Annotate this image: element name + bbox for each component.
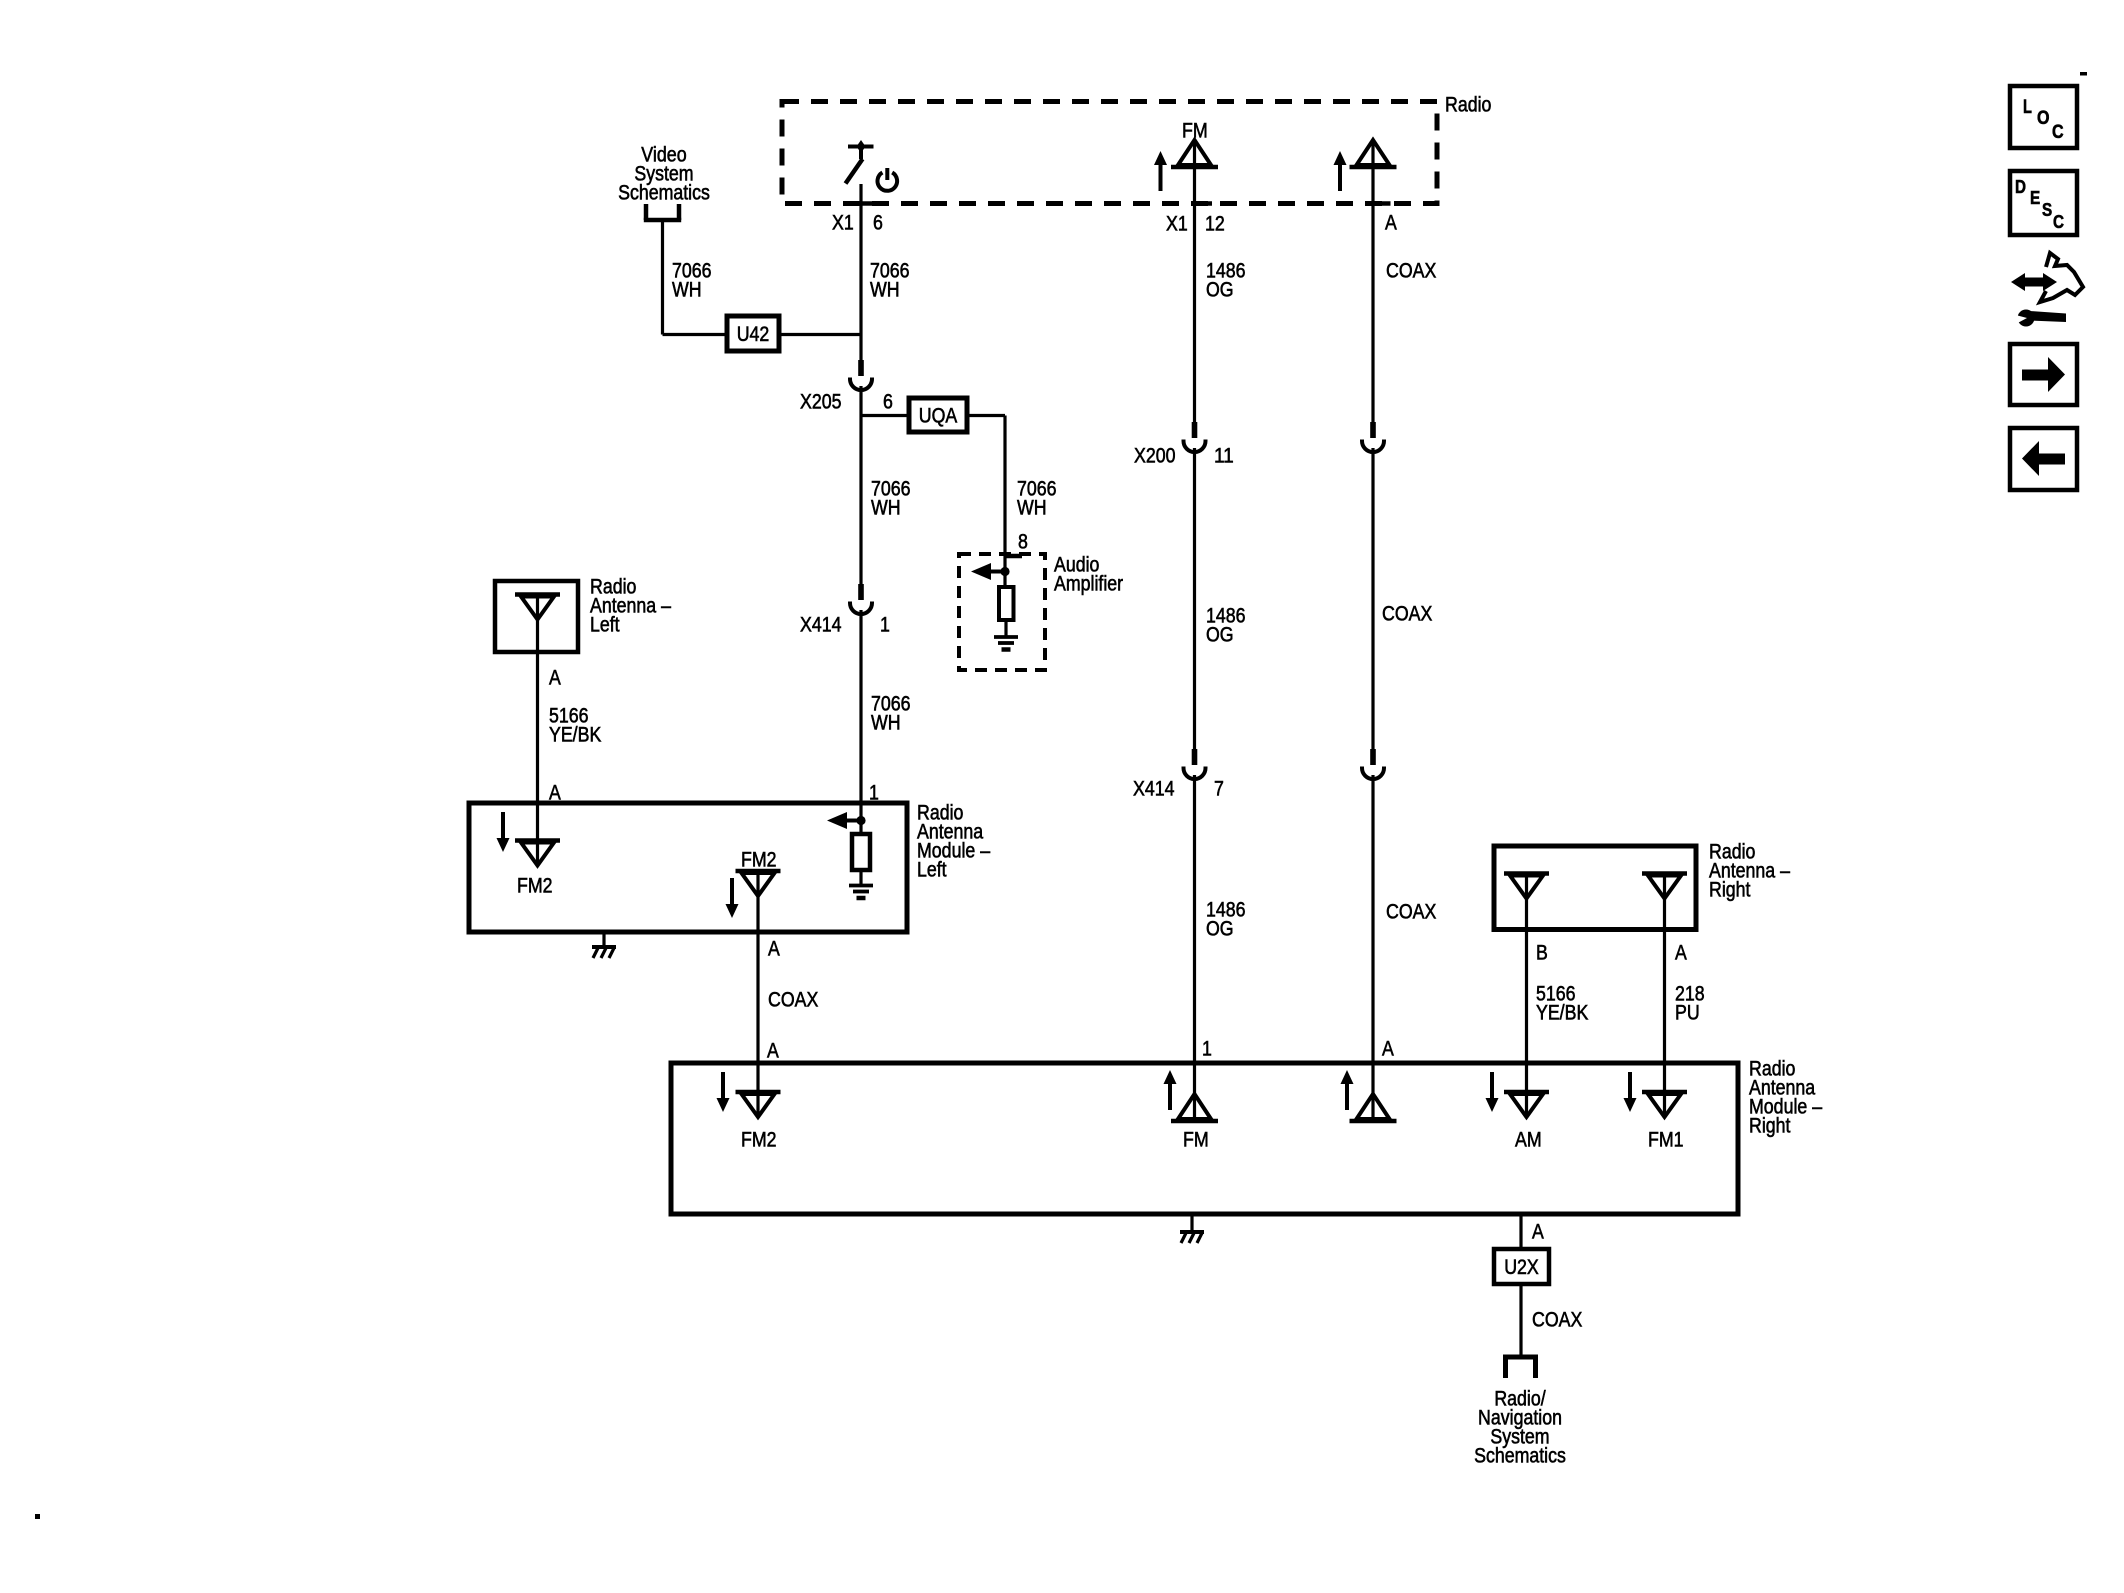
svg-text:D: D [2015,177,2026,197]
svg-text:FM: FM [1183,1128,1209,1151]
svg-text:YE/BK: YE/BK [1536,1001,1588,1024]
svg-text:A: A [549,666,561,689]
svg-text:C: C [2053,212,2064,232]
svg-text:L: L [2023,97,2032,118]
svg-text:A: A [1385,211,1397,234]
svg-text:U2X: U2X [1504,1256,1539,1279]
svg-text:WH: WH [1017,496,1047,519]
svg-text:WH: WH [871,711,901,734]
svg-text:COAX: COAX [1386,900,1436,923]
svg-text:Radio: Radio [1445,93,1491,116]
svg-text:COAX: COAX [1532,1308,1582,1331]
svg-text:A: A [1382,1037,1394,1060]
svg-text:8: 8 [1018,530,1028,553]
svg-text:Schematics: Schematics [618,181,710,204]
svg-text:FM2: FM2 [741,1128,777,1151]
svg-text:B: B [1536,941,1548,964]
svg-text:A: A [768,937,780,960]
svg-text:COAX: COAX [1386,259,1436,282]
svg-text:FM2: FM2 [517,874,553,897]
svg-text:OG: OG [1206,623,1234,646]
svg-text:UQA: UQA [919,404,958,427]
svg-text:FM1: FM1 [1648,1128,1684,1151]
svg-text:PU: PU [1675,1001,1700,1024]
svg-text:1: 1 [880,613,890,636]
svg-text:Schematics: Schematics [1474,1444,1566,1467]
svg-text:X1: X1 [832,211,854,234]
svg-text:E: E [2030,188,2040,208]
svg-text:7: 7 [1214,777,1224,800]
svg-text:COAX: COAX [1382,602,1432,625]
svg-text:FM: FM [1182,119,1208,142]
svg-text:A: A [1675,941,1687,964]
svg-text:X414: X414 [800,613,842,636]
svg-text:U42: U42 [737,323,770,346]
svg-text:A: A [767,1039,779,1062]
svg-text:COAX: COAX [768,988,818,1011]
svg-text:Right: Right [1709,878,1751,901]
svg-text:AM: AM [1515,1128,1542,1151]
svg-text:WH: WH [871,496,901,519]
svg-text:6: 6 [883,390,893,413]
svg-text:O: O [2037,108,2050,129]
svg-text:FM2: FM2 [741,848,777,871]
svg-text:6: 6 [873,211,883,234]
svg-text:YE/BK: YE/BK [549,723,601,746]
svg-text:11: 11 [1214,444,1234,467]
svg-text:X1: X1 [1166,212,1188,235]
svg-text:WH: WH [870,278,900,301]
svg-text:1: 1 [1202,1037,1212,1060]
svg-text:C: C [2052,122,2064,143]
svg-text:X205: X205 [800,390,842,413]
svg-text:Right: Right [1749,1114,1791,1137]
svg-text:OG: OG [1206,917,1234,940]
svg-text:Left: Left [590,613,620,636]
svg-text:X414: X414 [1133,777,1175,800]
svg-text:Amplifier: Amplifier [1054,572,1123,595]
svg-text:OG: OG [1206,278,1234,301]
svg-text:S: S [2042,200,2052,220]
svg-text:A: A [1532,1220,1544,1243]
svg-text:Left: Left [917,858,947,881]
svg-text:WH: WH [672,278,702,301]
svg-text:12: 12 [1205,212,1225,235]
svg-text:X200: X200 [1134,444,1176,467]
